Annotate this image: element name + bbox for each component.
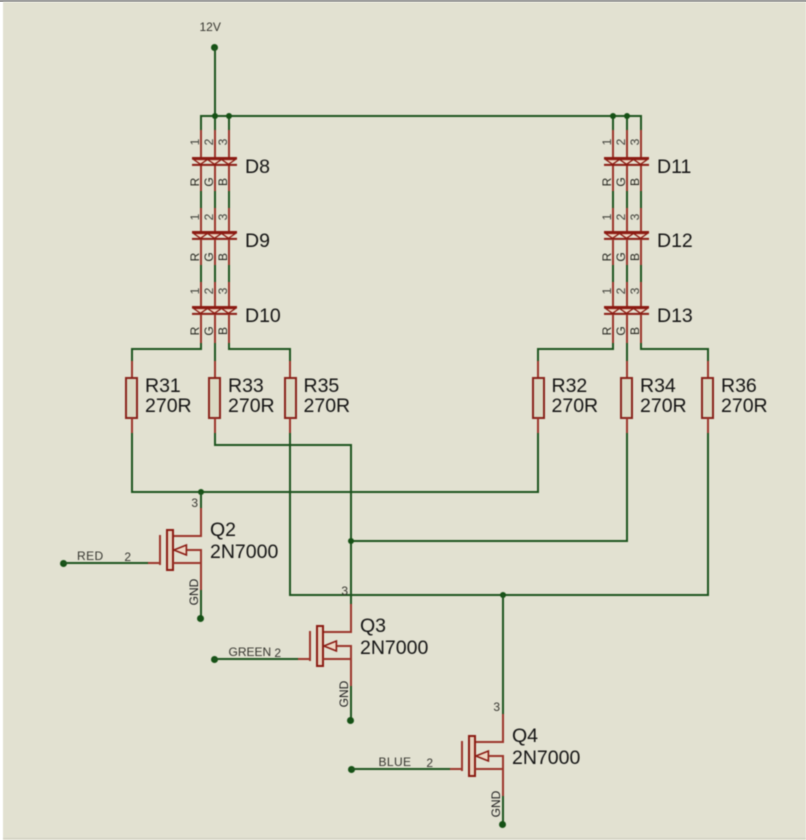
junction Q2 drain	[198, 489, 204, 495]
wire rail drop pin2	[626, 115, 628, 132]
Q4 label	[0, 0, 806, 1]
resistor R35	[0, 0, 806, 1]
Q3 drain pin number 3	[335, 585, 348, 597]
right LED column pin2 red segments	[0, 0, 806, 1]
Q2 drain pin number 3	[185, 497, 198, 509]
ground net label GND Q2	[188, 575, 200, 609]
left LED column pin3 green segments	[0, 0, 806, 1]
Q3 gate terminal GREEN	[211, 656, 218, 663]
Q4 gate terminal BLUE	[348, 766, 355, 773]
resistor R34	[0, 0, 806, 1]
Q2 label	[0, 0, 806, 1]
wire rail drop pin1	[612, 115, 614, 132]
transistor Q4 2N7000	[0, 0, 806, 1]
wire Q3 source to ground	[350, 686, 352, 722]
wire D10 pin G to R33	[214, 343, 216, 363]
wire Q4 source to ground	[502, 796, 504, 826]
Q3 gate pin number 2	[268, 647, 281, 659]
junction on rail at right pin2	[624, 113, 630, 119]
RGB LED D11	[0, 0, 806, 1]
RGB LED D9	[0, 0, 806, 1]
Q2 gate pin number 2	[118, 551, 131, 563]
wire D13 pin B bend to R36	[0, 0, 806, 1]
right LED column pin3 green segments	[0, 0, 806, 1]
wire Q2 source to ground	[200, 590, 202, 620]
wire D10 pin R bend to R31	[0, 0, 806, 1]
wire RED gate	[62, 562, 148, 564]
Q4 drain pin number 3	[487, 701, 500, 713]
left LED column pin3 red segments	[0, 0, 806, 1]
wire R34 bottom drop	[626, 433, 628, 543]
transistor Q3 2N7000	[0, 0, 806, 1]
net RED channel horizontal	[131, 491, 540, 493]
resistor R36	[0, 0, 806, 1]
window top edge	[0, 0, 806, 2]
left LED column pin2 green segments	[0, 0, 806, 1]
wire R33 bottom drop	[214, 433, 216, 447]
wire D10 pin B bend to R35	[0, 0, 806, 1]
left LED column pin2 red segments	[0, 0, 806, 1]
net label BLUE	[379, 756, 412, 768]
right LED column pin1 red segments	[0, 0, 806, 1]
wire Q3 drain vertical	[350, 444, 352, 608]
sheet bottom edge line	[3, 838, 806, 840]
wire R33 to Q3 drain horizontal	[214, 444, 352, 446]
power label 12V	[200, 21, 221, 33]
junction Q3 drain	[348, 538, 354, 544]
left LED column pin1 green segments	[0, 0, 806, 1]
Q4 gate pin number 2	[420, 757, 433, 769]
wire R35 bottom drop	[289, 433, 291, 597]
ground terminal Q2	[197, 615, 204, 622]
right LED column pin1 green segments	[0, 0, 806, 1]
RGB LED D8	[0, 0, 806, 1]
RGB LED D12	[0, 0, 806, 1]
power terminal 12V	[211, 44, 218, 51]
wire R31 bottom drop	[131, 433, 133, 494]
resistor R33	[0, 0, 806, 1]
wire rail drop pin3	[228, 115, 230, 132]
wire R32 bottom drop	[537, 433, 539, 494]
junction Q4 drain	[500, 592, 506, 598]
wire rail drop pin1	[200, 115, 202, 132]
wire BLUE gate	[351, 768, 451, 770]
wire rail drop pin3	[640, 115, 642, 132]
net label GREEN	[229, 646, 272, 658]
wire GREEN gate	[213, 658, 298, 660]
wire D13 pin G to R34	[626, 343, 628, 363]
resistor R31	[0, 0, 806, 1]
right LED column pin3 red segments	[0, 0, 806, 1]
wire D13 pin R bend to R32	[0, 0, 806, 1]
junction on rail at right pin1	[610, 113, 616, 119]
net GREEN channel horizontal	[350, 540, 628, 542]
ground net label GND Q3	[338, 677, 350, 711]
transistor Q2 2N7000	[0, 0, 806, 1]
wire rail drop pin2	[214, 115, 216, 132]
RGB LED D10	[0, 0, 806, 1]
RGB LED D13	[0, 0, 806, 1]
wire Q4 drain vertical	[502, 594, 504, 716]
ground terminal Q3	[347, 717, 354, 724]
wire 12V stem	[214, 47, 216, 118]
wire top power rail	[200, 115, 642, 117]
resistor R32	[0, 0, 806, 1]
net label RED	[77, 550, 104, 562]
left LED column pin1 red segments	[0, 0, 806, 1]
wire R36 bottom drop	[707, 433, 709, 597]
ground terminal Q4	[499, 821, 506, 828]
junction on rail at left pin3	[226, 113, 232, 119]
junction on rail at left pin2	[212, 113, 218, 119]
right LED column pin2 green segments	[0, 0, 806, 1]
Q3 label	[0, 0, 806, 1]
ground net label GND Q4	[490, 787, 502, 821]
Q2 gate terminal RED	[60, 560, 67, 567]
net BLUE channel horizontal	[289, 594, 709, 596]
